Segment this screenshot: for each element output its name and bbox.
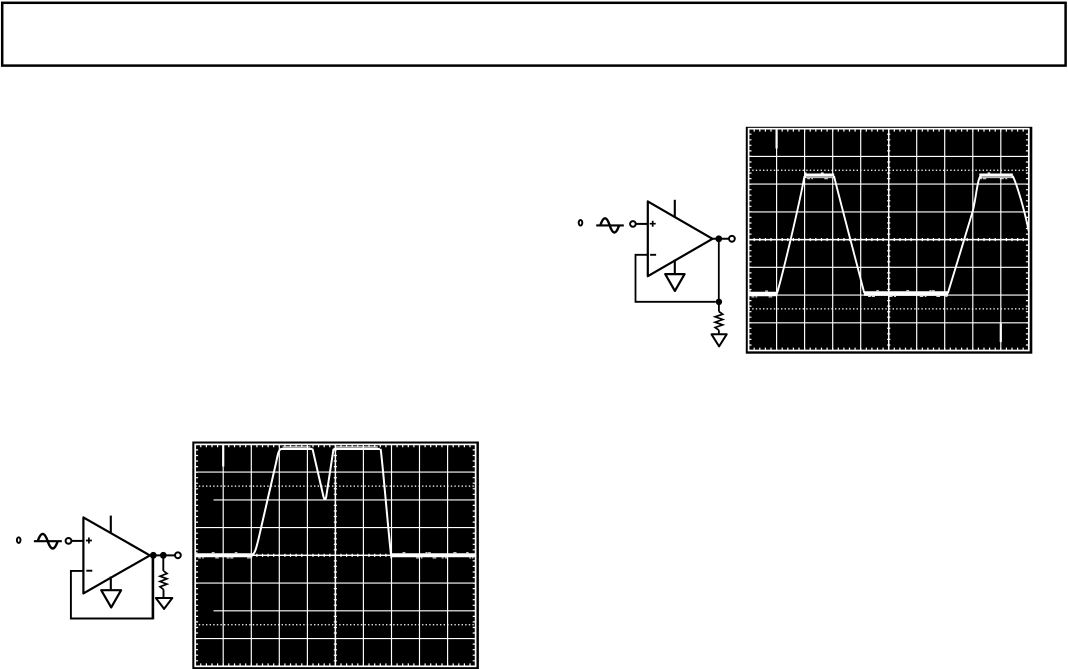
circuit 2: ground pin wire <box>110 577 112 591</box>
circuit 1: feedback wire <box>636 255 716 302</box>
scope photo 2: center axis tick marks <box>201 450 470 661</box>
circuit 2: output wire <box>150 554 175 556</box>
circuit 1: output terminal <box>729 236 735 242</box>
circuit 1: ground pin wire <box>674 260 676 274</box>
scope photo 1: bright grid artifact top left <box>775 130 777 149</box>
scope photo 1: waveform trace flat segments <box>749 176 1013 294</box>
circuit 1: load node junction <box>716 299 722 305</box>
circuit 2: minus input label <box>86 570 92 572</box>
scope photo 1: bright grid artifact bottom right <box>1000 324 1002 343</box>
scope photo 1: trace fuzz <box>749 291 948 297</box>
circuit 1: wire input to +in <box>636 223 649 225</box>
circuit 2: output node junction <box>150 552 157 559</box>
circuit 1: load resistor RL <box>718 302 720 312</box>
scope photo 2: waveform top flat segments <box>281 448 380 450</box>
circuit 1: node VIN label 0 <box>579 220 583 226</box>
circuit 1: resistor ground symbol <box>712 334 727 346</box>
scope photo 2: center axis lines <box>195 444 475 666</box>
scope photo 1: edge tick marks <box>749 129 1029 351</box>
circuit 2: wire input to +in <box>72 540 85 542</box>
circuit 2: op-amp A2 <box>83 517 149 593</box>
circuit 1: input terminal <box>630 221 636 227</box>
scope photo 2: frame <box>192 442 479 669</box>
circuit 2: resistor ground symbol <box>156 598 172 609</box>
scope photo 2: edge tick marks <box>195 444 475 666</box>
circuit 1: plus input label <box>650 221 656 227</box>
circuit 2: load resistor RL <box>162 555 164 571</box>
circuit 2: ground symbol <box>101 590 121 607</box>
circuit 2: node VIN label 0 <box>17 537 21 543</box>
scope photo 1: center axis lines <box>749 129 1029 351</box>
scope photo 2: lower dotted reference line <box>195 624 475 626</box>
circuit 2: plus input label <box>86 538 92 544</box>
scope photo 1: waveform trace slopes <box>777 176 1029 294</box>
circuit 1: wire output node down to load node <box>718 239 720 302</box>
circuit 1: op-amp A1 <box>648 201 713 276</box>
scope photo 2: baseline trace <box>195 553 475 557</box>
scope photo 1: trace hollow core on top flats <box>806 176 1012 178</box>
circuit 2: input terminal <box>66 538 72 544</box>
circuit 2: feedback wire <box>71 571 153 619</box>
scope photo 2: upper dotted reference line <box>195 485 475 487</box>
scope photo 2: baseline fuzz <box>195 553 473 558</box>
circuit 1: output node junction <box>715 235 722 242</box>
scope photo 2: graticule border <box>195 444 475 666</box>
scope photo 1: center axis tick marks <box>754 134 1023 345</box>
scope photo 1: upper dotted reference line <box>749 169 1029 171</box>
circuit 2: wire output node down to feedback <box>152 555 155 619</box>
circuit 1: minus input label <box>650 254 656 256</box>
scope photo 2: graticule grid <box>223 444 447 666</box>
circuit 2: V+ power pin <box>110 516 112 533</box>
header box <box>2 3 1065 66</box>
circuit 1: sine source symbol <box>596 218 624 232</box>
scope photo 1: graticule grid <box>777 129 1001 351</box>
circuit 2: load node junction <box>160 552 167 559</box>
circuit 2: output terminal <box>175 552 181 558</box>
scope photo 2: bright grid artifact top left <box>222 445 224 467</box>
scope photo 2: waveform trace slopes <box>252 449 391 555</box>
scope photo 1: frame <box>746 127 1033 354</box>
scope photo 2: waveform top double-line <box>283 446 378 448</box>
scope photo 1: graticule border <box>749 129 1029 351</box>
circuit 1: ground symbol <box>665 274 684 291</box>
circuit 1: output wire <box>713 238 730 240</box>
circuit 1: V+ power pin <box>674 200 676 218</box>
circuit 2: sine source symbol <box>34 534 62 549</box>
scope photo 1: lower dotted reference line <box>749 308 1029 310</box>
